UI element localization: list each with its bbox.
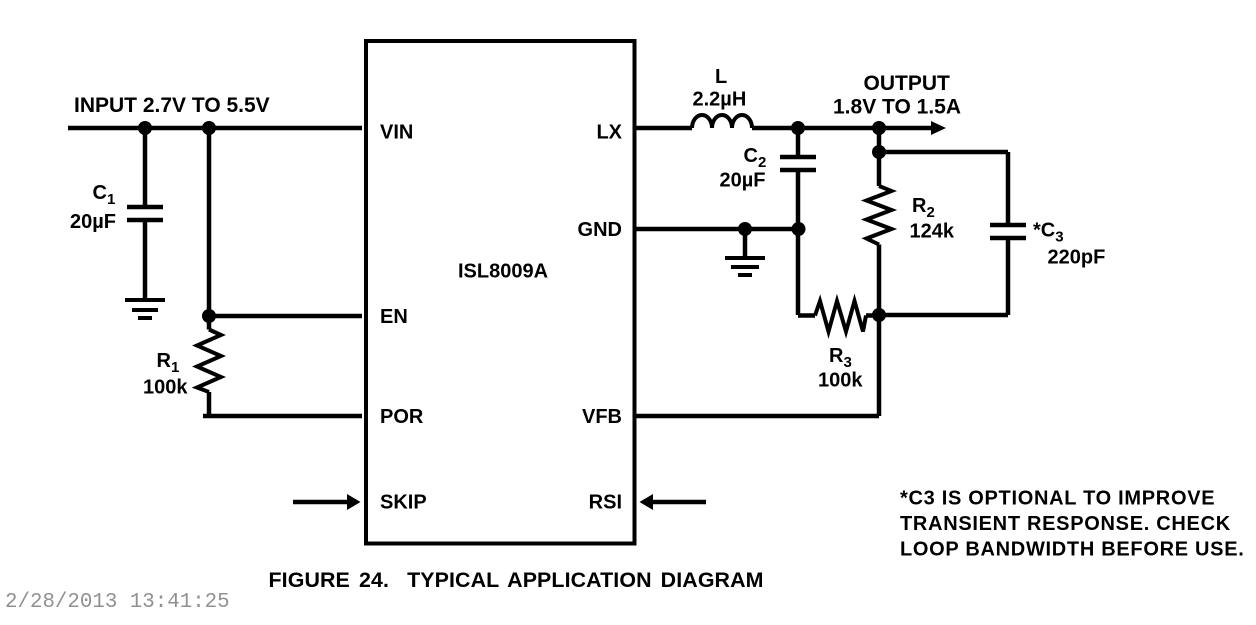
svg-text:R1: R1 <box>157 350 180 376</box>
svg-text:C2: C2 <box>744 145 767 171</box>
svg-text:VIN: VIN <box>380 122 413 144</box>
svg-text:*C3: *C3 <box>1033 220 1064 246</box>
svg-text:2.2µH: 2.2µH <box>693 89 747 111</box>
svg-text:100k: 100k <box>143 377 188 399</box>
svg-text:LOOP BANDWIDTH BEFORE USE.: LOOP BANDWIDTH BEFORE USE. <box>900 539 1245 561</box>
svg-text:POR: POR <box>380 406 424 428</box>
svg-text:FIGURE 24. TYPICAL APPLICATIO: FIGURE 24. TYPICAL APPLICATION DIAGRAM <box>269 568 764 592</box>
svg-text:TRANSIENT RESPONSE. CHECK: TRANSIENT RESPONSE. CHECK <box>900 513 1231 535</box>
svg-text:R3: R3 <box>829 345 852 371</box>
svg-text:*C3 IS OPTIONAL TO IMPROVE: *C3 IS OPTIONAL TO IMPROVE <box>900 488 1215 510</box>
svg-text:100k: 100k <box>818 370 863 392</box>
svg-text:124k: 124k <box>910 221 955 243</box>
svg-text:INPUT 2.7V TO 5.5V: INPUT 2.7V TO 5.5V <box>74 94 270 117</box>
svg-text:C1: C1 <box>93 182 116 208</box>
svg-text:GND: GND <box>578 219 622 241</box>
svg-text:VFB: VFB <box>582 406 622 428</box>
svg-text:ISL8009A: ISL8009A <box>458 261 548 283</box>
svg-text:RSI: RSI <box>589 492 622 514</box>
svg-text:2/28/2013 13:41:25: 2/28/2013 13:41:25 <box>5 591 230 614</box>
svg-text:OUTPUT: OUTPUT <box>864 72 951 95</box>
svg-text:R2: R2 <box>912 195 935 221</box>
svg-text:20µF: 20µF <box>70 211 116 233</box>
svg-text:EN: EN <box>380 306 408 328</box>
svg-text:SKIP: SKIP <box>380 492 427 514</box>
svg-text:L: L <box>715 66 727 88</box>
svg-text:LX: LX <box>596 122 622 144</box>
svg-text:20µF: 20µF <box>720 170 766 192</box>
svg-text:1.8V TO 1.5A: 1.8V TO 1.5A <box>833 96 961 119</box>
svg-text:220pF: 220pF <box>1048 247 1106 269</box>
